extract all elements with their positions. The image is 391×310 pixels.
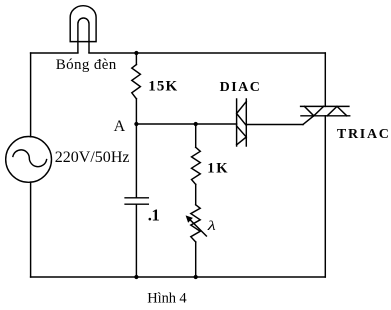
svg-text:1K: 1K	[207, 160, 228, 176]
lamp DS1 (Bóng đèn) bulb outline	[70, 6, 96, 42]
DIAC D1 left rail	[236, 99, 238, 146]
potentiometer wiper arrowhead	[186, 215, 193, 222]
wire: left edge lower (AC source to bottom corner)	[30, 182, 32, 277]
node: bottom junction dot potentiometer branch	[194, 275, 198, 279]
TRIAC left triangle (points down)	[304, 106, 323, 115]
wire: right edge upper (top corner to TRIAC)	[324, 53, 326, 106]
node: top junction dot	[134, 51, 138, 55]
capacitor C1 bottom plate	[125, 203, 148, 205]
potentiometer VR1 zigzag	[191, 205, 200, 242]
node: bottom junction dot capacitor branch	[134, 275, 138, 279]
wire: node A down to capacitor	[135, 124, 137, 198]
wire: 15K resistor down to node A	[135, 99, 137, 124]
wire: top wire down to 15K resistor	[135, 53, 137, 65]
svg-text:A: A	[114, 118, 126, 135]
DIAC D1 right rail	[245, 99, 247, 146]
wire: node A to DIAC	[136, 123, 236, 125]
wire: potentiometer to bottom wire	[195, 242, 197, 277]
svg-text:TRIAC: TRIAC	[337, 127, 389, 142]
wire: tee junction down to 1K resistor	[195, 124, 197, 147]
wire: capacitor to bottom wire	[135, 204, 137, 277]
resistor R1 15K zigzag	[132, 65, 141, 99]
wire: top right segment	[89, 52, 325, 54]
AC source sine wave	[13, 150, 47, 167]
svg-text:DIAC: DIAC	[220, 80, 260, 95]
node A dot	[134, 122, 138, 126]
wire: right edge lower (TRIAC to bottom corner)	[324, 116, 326, 277]
svg-text:λ: λ	[206, 219, 215, 234]
wire: left edge upper (top corner to AC source)	[30, 53, 32, 137]
svg-text:.1: .1	[148, 206, 160, 225]
wire: 1K resistor to potentiometer	[195, 184, 197, 204]
svg-text:Bóng đèn: Bóng đèn	[56, 57, 117, 73]
svg-text:220V/50Hz: 220V/50Hz	[55, 149, 130, 166]
TRIAC Q1 bottom rail	[301, 115, 350, 117]
wire: TRIAC gate diagonal	[303, 116, 314, 125]
wire: bottom edge	[31, 276, 326, 278]
wire: DIAC to TRIAC gate horizontal	[246, 124, 303, 126]
DIAC bottom triangle (points right)	[237, 126, 247, 145]
DIAC top triangle (points left)	[237, 102, 247, 126]
node: tee junction dot for 1K branch	[194, 122, 198, 126]
lamp filament inner loop	[78, 18, 89, 52]
TRIAC Q1 top rail	[301, 105, 349, 107]
svg-text:15K: 15K	[148, 79, 177, 95]
wire: top left segment	[31, 52, 78, 54]
potentiometer wiper arrow shaft	[190, 219, 207, 236]
svg-text:Hình 4: Hình 4	[147, 290, 187, 306]
capacitor C1 top plate	[125, 197, 148, 199]
TRIAC right triangle (points up)	[327, 106, 347, 115]
resistor R2 1K zigzag	[192, 147, 201, 184]
AC source V1 circle	[6, 137, 52, 183]
